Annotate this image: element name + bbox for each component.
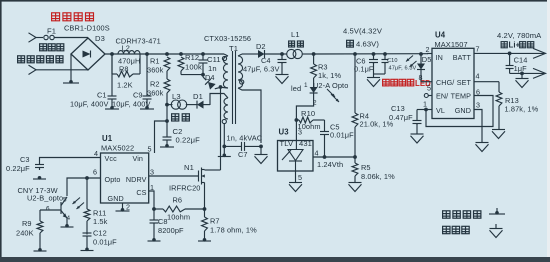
svg-text:Vin: Vin xyxy=(132,154,143,163)
wire L3 to D1 xyxy=(186,104,197,106)
ground non-isolated (C12) xyxy=(85,248,89,252)
bridge rectifier D3 xyxy=(71,38,105,70)
frame left line xyxy=(0,0,2,258)
capacitor C13 xyxy=(416,110,418,121)
svg-text:1.24Vth: 1.24Vth xyxy=(317,160,343,169)
node C9 junction xyxy=(145,52,149,56)
resistor R10 xyxy=(299,117,313,123)
wire C13 stem xyxy=(416,124,418,134)
ground non-isolated (C2) xyxy=(165,144,169,148)
svg-text:1μF: 1μF xyxy=(514,64,528,73)
node R1 top junction xyxy=(165,52,169,56)
battery output arrow - xyxy=(533,68,546,78)
resistor R5 xyxy=(354,157,356,163)
wire R11-C12 xyxy=(86,221,88,235)
node AC input terminal 2 (bottom) xyxy=(29,65,37,74)
legend isolated ground symbol xyxy=(495,224,497,228)
svg-text:0.1μF: 0.1μF xyxy=(354,65,374,74)
svg-text:100k: 100k xyxy=(185,63,202,72)
wire U1 GND pin xyxy=(122,203,124,209)
ground non-isolated (C9) xyxy=(145,106,149,110)
node C6 junction xyxy=(372,52,376,56)
node R12 top junction xyxy=(179,52,183,56)
wire U1 Vcc pin to C3 xyxy=(40,158,101,165)
svg-text:D4: D4 xyxy=(205,73,215,82)
wire R2 to Vcc node xyxy=(166,93,168,104)
svg-text:R9: R9 xyxy=(22,219,32,228)
svg-text:4: 4 xyxy=(476,72,480,81)
wire U2-A cathode xyxy=(296,93,313,141)
legend non-isolated ground label xyxy=(443,211,450,218)
capacitor C7 xyxy=(241,142,243,151)
capacitor C8 xyxy=(153,209,155,220)
node R3 junction xyxy=(312,52,316,56)
svg-text:3: 3 xyxy=(298,128,302,137)
svg-text:1n, 4kVAC: 1n, 4kVAC xyxy=(227,134,263,143)
node C10 junction xyxy=(383,52,387,56)
svg-text:4.63V): 4.63V) xyxy=(356,40,379,49)
svg-text:C7: C7 xyxy=(238,150,248,159)
svg-text:2: 2 xyxy=(126,203,130,212)
wire battery return xyxy=(510,72,544,74)
svg-text:T1: T1 xyxy=(229,44,238,53)
diode D1 xyxy=(196,101,198,109)
node D5 junction xyxy=(419,52,423,56)
wire R9 bottom xyxy=(39,233,41,249)
svg-text:0.01μF: 0.01μF xyxy=(93,238,117,247)
wire D1 anode xyxy=(204,104,211,106)
wire D5 top xyxy=(420,54,422,64)
svg-text:VL: VL xyxy=(436,106,445,115)
label fuse chinese xyxy=(40,44,47,51)
wire AC2 to bridge bottom xyxy=(36,69,88,71)
svg-text:CTX03-15256: CTX03-15256 xyxy=(204,34,251,43)
svg-text:5: 5 xyxy=(63,197,67,204)
optocoupler LED U2-A xyxy=(310,87,318,93)
svg-text:6: 6 xyxy=(46,206,50,213)
svg-text:U2-B_opto: U2-B_opto xyxy=(27,194,63,203)
svg-text:R12: R12 xyxy=(185,53,199,62)
ferrite bead L3 xyxy=(171,100,180,109)
wire R13 bottom xyxy=(498,106,500,129)
svg-text:R2: R2 xyxy=(150,80,160,89)
capacitor C10 xyxy=(384,54,386,60)
capacitor C6 xyxy=(373,54,375,60)
resistor R6 xyxy=(163,206,185,212)
ferrite bead L1 xyxy=(282,53,287,55)
wire D4 anode to drain node xyxy=(215,87,221,89)
svg-text:10ohm: 10ohm xyxy=(167,213,190,222)
wire R11 top xyxy=(86,178,88,209)
svg-text:4: 4 xyxy=(94,149,98,158)
svg-text:F1: F1 xyxy=(47,27,56,36)
ground isolated (C13) xyxy=(411,133,424,135)
capacitor C2 xyxy=(166,121,168,137)
wire secondary top to D2 rail xyxy=(238,54,242,56)
svg-text:D5: D5 xyxy=(422,55,432,64)
frame bottom band xyxy=(0,257,550,262)
svg-text:5: 5 xyxy=(427,84,431,93)
wire U4 TEMP to VL xyxy=(426,96,493,127)
svg-text:D3: D3 xyxy=(95,34,105,43)
svg-text:CS: CS xyxy=(136,188,146,197)
wire drain vertical xyxy=(220,87,222,170)
wire R1-R2 xyxy=(166,71,168,79)
svg-text:4.5V(4.32V: 4.5V(4.32V xyxy=(343,27,383,36)
node AC input terminal 1 (top) xyxy=(29,33,37,42)
capacitor C1 xyxy=(111,54,113,96)
svg-text:431: 431 xyxy=(299,139,312,148)
wire Vcc node to L3 xyxy=(167,104,173,106)
frame top line xyxy=(0,0,547,2)
wire R12-C11 bottom xyxy=(181,74,203,76)
ground non-isolated (U2-B emitter) xyxy=(65,224,69,228)
svg-text:C12: C12 xyxy=(93,229,107,238)
wire U4 GND route xyxy=(474,110,482,143)
node secondary ground junction xyxy=(259,145,263,149)
svg-text:IRFRC20: IRFRC20 xyxy=(169,184,201,193)
node R11 junction xyxy=(85,176,89,180)
ground non-isolated (R7) xyxy=(203,238,207,242)
wire Vcc node down xyxy=(166,105,168,121)
svg-text:360k: 360k xyxy=(147,66,164,75)
svg-text:47μF, 6.3V: 47μF, 6.3V xyxy=(389,66,417,72)
svg-text:1: 1 xyxy=(304,82,308,89)
svg-text:IN: IN xyxy=(436,53,443,62)
svg-text:5: 5 xyxy=(148,145,152,154)
svg-text:1.78 ohm, 1%: 1.78 ohm, 1% xyxy=(210,226,257,235)
ground isolated (R5) xyxy=(349,182,362,184)
svg-text:L3: L3 xyxy=(172,92,181,101)
U3 pin4 wire xyxy=(313,156,355,158)
capacitor C14 xyxy=(509,53,511,65)
svg-text:0.01μF: 0.01μF xyxy=(330,131,354,140)
svg-text:1: 1 xyxy=(423,100,427,109)
node C11 top junction xyxy=(201,52,205,56)
capacitor C3 xyxy=(35,164,44,166)
wire R4 top xyxy=(354,54,356,113)
wire U4 BATT out xyxy=(474,52,544,54)
svg-text:C3: C3 xyxy=(20,155,30,164)
node VL junction xyxy=(424,108,428,112)
svg-text:R1: R1 xyxy=(150,57,160,66)
wire D5 to CHG xyxy=(420,70,422,82)
svg-text:GND: GND xyxy=(455,106,471,115)
diode D2 xyxy=(258,50,265,58)
svg-text:L1: L1 xyxy=(291,30,300,39)
svg-text:D1: D1 xyxy=(193,92,203,101)
svg-text:360k: 360k xyxy=(147,89,164,98)
svg-text:C13: C13 xyxy=(391,104,405,113)
resistor R7 xyxy=(204,209,206,217)
svg-text:R8: R8 xyxy=(119,65,129,74)
wire N1 drain xyxy=(204,169,206,172)
resistor R11 xyxy=(84,209,90,221)
node C5 bottom junction xyxy=(323,155,327,159)
svg-text:Li+: Li+ xyxy=(509,40,521,49)
svg-text:U1: U1 xyxy=(102,134,113,143)
svg-text:U2-A Opto: U2-A Opto xyxy=(313,81,348,90)
ground non-isolated (C3) xyxy=(38,176,42,180)
wire DC+ rail xyxy=(105,53,224,55)
label charge status LED (red) xyxy=(383,79,390,86)
ground isolated (C14) xyxy=(516,78,529,80)
svg-text:BATT: BATT xyxy=(453,53,472,62)
label AC input chinese xyxy=(18,56,25,63)
ground non-isolated (aux return) xyxy=(223,154,227,158)
wire secondary bottom down xyxy=(238,88,261,143)
wire Vin to U1 pin5 xyxy=(155,121,168,153)
wire rail to primary top xyxy=(224,54,228,56)
ground non-isolated (R9) xyxy=(38,248,42,252)
ground non-isolated (C1) xyxy=(110,106,114,110)
wire rail into U4 IN xyxy=(427,53,432,55)
svg-text:C8: C8 xyxy=(158,217,168,226)
wire secondary ground stem xyxy=(260,146,262,154)
svg-text:MAX5022: MAX5022 xyxy=(101,144,134,153)
svg-text:TLV: TLV xyxy=(280,139,294,148)
svg-text:Opto: Opto xyxy=(105,175,121,184)
svg-text:led: led xyxy=(291,84,301,93)
svg-text:3: 3 xyxy=(150,168,154,177)
svg-text:EN/: EN/ xyxy=(436,92,448,101)
svg-text:8: 8 xyxy=(419,73,423,82)
transformer primary winding xyxy=(223,56,228,88)
node drain junction xyxy=(219,85,223,89)
fuse F1 xyxy=(44,35,48,39)
node Vcc rail junction xyxy=(165,103,169,107)
node C4 junction xyxy=(280,52,284,56)
svg-text:0.22μF: 0.22μF xyxy=(6,164,30,173)
capacitor C12 xyxy=(83,232,92,234)
svg-text:C10: C10 xyxy=(387,58,398,64)
svg-text:L2: L2 xyxy=(122,44,130,53)
wire L2/R8 right leg xyxy=(139,54,141,74)
transistor N1 IRFRC20 xyxy=(198,171,200,182)
node battery return junction xyxy=(520,72,524,76)
op-amp U1 MAX5022 box xyxy=(101,153,149,203)
svg-text:D2: D2 xyxy=(256,42,266,51)
node R4 rail junction xyxy=(353,52,357,56)
svg-text:6: 6 xyxy=(93,168,97,177)
wire secondary rail to D2 xyxy=(242,53,258,55)
node Vin junction xyxy=(165,119,169,123)
ground non-isolated (bridge DC-) xyxy=(69,80,73,84)
wire secondary rail xyxy=(314,53,428,55)
svg-text:2: 2 xyxy=(426,45,430,54)
svg-text:C9: C9 xyxy=(133,91,143,100)
legend isolated ground label xyxy=(443,226,450,233)
label dangerous voltage (red) xyxy=(52,13,60,21)
phase dot aux xyxy=(222,119,226,123)
svg-text:MAX1507: MAX1507 xyxy=(435,40,468,49)
svg-text:U3: U3 xyxy=(279,128,290,137)
svg-text:8.06k, 1%: 8.06k, 1% xyxy=(361,172,395,181)
wire R4 bottom xyxy=(354,127,356,157)
svg-text:R5: R5 xyxy=(361,163,371,172)
svg-text:NDRV: NDRV xyxy=(126,175,147,184)
svg-text:8200pF: 8200pF xyxy=(158,226,184,235)
svg-text:47μF, 6.3V: 47μF, 6.3V xyxy=(243,65,279,74)
svg-text:TEMP: TEMP xyxy=(451,92,471,101)
U3 pin5 wire xyxy=(295,171,297,182)
node FB junction xyxy=(295,118,299,122)
capacitor C11 xyxy=(202,54,204,60)
wire C7 right xyxy=(245,145,262,147)
svg-text:C1: C1 xyxy=(97,91,107,100)
LED D5 light arrows xyxy=(406,56,413,62)
LED D5 xyxy=(417,64,425,70)
resistor R2 xyxy=(164,79,170,93)
capacitor C9 xyxy=(146,54,148,96)
node CS junction xyxy=(152,207,156,211)
ground isolated (U4 GND) xyxy=(476,142,489,144)
charger U4 MAX1507 box xyxy=(432,48,474,118)
svg-text:N1: N1 xyxy=(184,163,194,172)
node aux ground junction xyxy=(222,145,226,149)
ground isolated (C6 C10) xyxy=(367,77,380,79)
resistor R9 xyxy=(37,221,43,233)
wire D2 to C4 node xyxy=(265,53,283,55)
wire aux bottom down xyxy=(223,124,225,147)
wire U1 CS pin xyxy=(149,191,154,209)
svg-text:R7: R7 xyxy=(210,217,220,226)
wire C7 left xyxy=(224,145,241,147)
wire C4 stem xyxy=(281,63,283,75)
wire U2-B emitter xyxy=(66,218,68,225)
wire battery return ground stem xyxy=(521,73,523,78)
wire C6-C10 join xyxy=(373,63,375,75)
wire U4 SET to R13 xyxy=(474,81,499,83)
svg-text:1.5k: 1.5k xyxy=(93,217,108,226)
optocoupler transistor U2-B xyxy=(60,202,62,214)
opto U2-B light arrows xyxy=(73,198,81,205)
svg-text:240K: 240K xyxy=(16,229,34,238)
svg-text:1.2K: 1.2K xyxy=(117,81,133,90)
svg-text:1.87k, 1%: 1.87k, 1% xyxy=(505,105,539,114)
capacitor C4 xyxy=(281,54,283,60)
node snubber bottom xyxy=(201,73,205,77)
diode D4 xyxy=(205,79,216,90)
wire AC1 to fuse xyxy=(36,37,43,39)
svg-text:R6: R6 xyxy=(173,196,183,205)
shunt regulator U3 TLV431 box xyxy=(278,141,314,172)
transformer secondary winding xyxy=(238,56,243,88)
transformer core xyxy=(232,51,234,124)
resistor R12 xyxy=(178,57,184,71)
svg-text:5: 5 xyxy=(298,173,302,182)
svg-text:R13: R13 xyxy=(505,96,519,105)
wire primary bottom to drain node xyxy=(221,86,229,89)
svg-text:4.2V, 780mA: 4.2V, 780mA xyxy=(497,31,542,40)
resistor R1 xyxy=(164,57,170,71)
opto U2-A light arrows xyxy=(327,89,335,97)
ground isolated (C4) xyxy=(276,74,289,76)
resistor R4 xyxy=(352,113,358,127)
svg-text:1n: 1n xyxy=(208,64,217,73)
battery output arrow + xyxy=(533,48,546,58)
wire U2-B base xyxy=(40,209,61,211)
node C1 junction xyxy=(110,52,114,56)
svg-text:4: 4 xyxy=(315,149,319,158)
node R5 junction xyxy=(353,155,357,159)
svg-text:0.47μF: 0.47μF xyxy=(389,113,413,122)
ground isolated (R13) xyxy=(492,129,505,131)
wire U1 Opto pin xyxy=(67,178,101,196)
svg-text:0.22μF: 0.22μF xyxy=(176,136,201,145)
ground non-isolated (C8) xyxy=(152,238,156,242)
svg-text:R10: R10 xyxy=(301,109,315,118)
legend non-isolated ground symbol xyxy=(496,208,498,212)
wire N1 source xyxy=(204,183,206,209)
wire fuse to bridge top xyxy=(54,37,88,39)
svg-text:7: 7 xyxy=(476,45,480,54)
phase dot secondary xyxy=(240,80,244,84)
svg-text:3: 3 xyxy=(476,101,480,110)
svg-text:10μF, 400V: 10μF, 400V xyxy=(112,100,151,109)
svg-text:GND: GND xyxy=(108,194,124,203)
wire U1 NDRV to gate xyxy=(149,175,199,177)
ground isolated (secondary) xyxy=(255,154,268,156)
resistor R8 xyxy=(112,73,117,75)
wire D1 to aux top xyxy=(210,94,228,106)
wire snubber to D4 xyxy=(202,75,204,77)
node C14 junction xyxy=(508,52,512,56)
wire aux ground stem xyxy=(223,146,225,154)
node source junction xyxy=(203,207,207,211)
svg-text:CBR1-D100S: CBR1-D100S xyxy=(64,24,110,33)
svg-text:Vcc: Vcc xyxy=(105,154,118,163)
svg-text:1k, 1%: 1k, 1% xyxy=(318,71,342,80)
ground non-isolated (U1 GND) xyxy=(121,208,125,212)
resistor R13 xyxy=(496,92,502,106)
capacitor C5 xyxy=(324,120,326,132)
svg-text:CHG/: CHG/ xyxy=(436,78,454,87)
U3 TLV431 symbol xyxy=(295,141,297,150)
transformer aux winding xyxy=(224,98,228,119)
wire L2/R8 left leg xyxy=(111,54,113,74)
svg-text:C11: C11 xyxy=(207,55,221,64)
ground isolated (U3) xyxy=(289,182,302,184)
inductor L2 xyxy=(118,51,140,54)
svg-text:SET: SET xyxy=(457,78,472,87)
resistor R3 xyxy=(313,54,315,64)
wire U4 EN stub xyxy=(428,95,432,97)
svg-text:U4: U4 xyxy=(435,31,446,40)
wire DC- from bridge left vertex xyxy=(70,54,72,81)
wire U4 VL to C13 xyxy=(417,109,432,111)
phase dot primary xyxy=(222,56,226,60)
svg-text:10μF, 400V: 10μF, 400V xyxy=(70,100,109,109)
